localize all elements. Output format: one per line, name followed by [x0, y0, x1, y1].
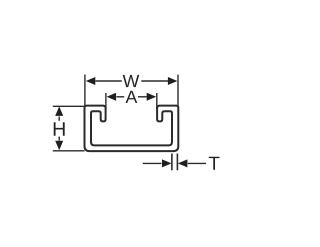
T arrowhead right: [178, 159, 188, 167]
T extension tick outer: [176, 154, 178, 171]
W arrowhead right: [168, 77, 178, 85]
A extension line left: [105, 93, 107, 109]
W dimension line left segment: [96, 80, 122, 82]
T leader line right: [188, 162, 206, 164]
label A: [126, 91, 138, 103]
label H: [54, 122, 65, 136]
A dimension line right segment: [138, 96, 147, 98]
H dimension line upper segment: [58, 117, 60, 121]
H extension line top: [53, 105, 85, 107]
A arrowhead left: [107, 93, 117, 101]
label W: [123, 75, 140, 87]
label T: [209, 157, 220, 170]
T extension tick inner: [171, 154, 173, 171]
H arrowhead top: [55, 106, 63, 116]
W arrowhead left: [86, 77, 96, 85]
H arrowhead bottom: [55, 141, 63, 151]
A extension line right: [156, 93, 158, 109]
W extension line right: [177, 75, 179, 106]
H extension line bottom: [53, 150, 85, 152]
W dimension line right segment: [141, 80, 168, 82]
T arrowhead left: [162, 159, 172, 167]
A dimension line left segment: [117, 96, 125, 98]
A arrowhead right: [147, 93, 157, 101]
W extension line left: [84, 75, 86, 106]
strut channel cross-section outline: [85, 106, 179, 152]
T leader line left: [143, 162, 162, 164]
H dimension line lower segment: [58, 137, 60, 141]
